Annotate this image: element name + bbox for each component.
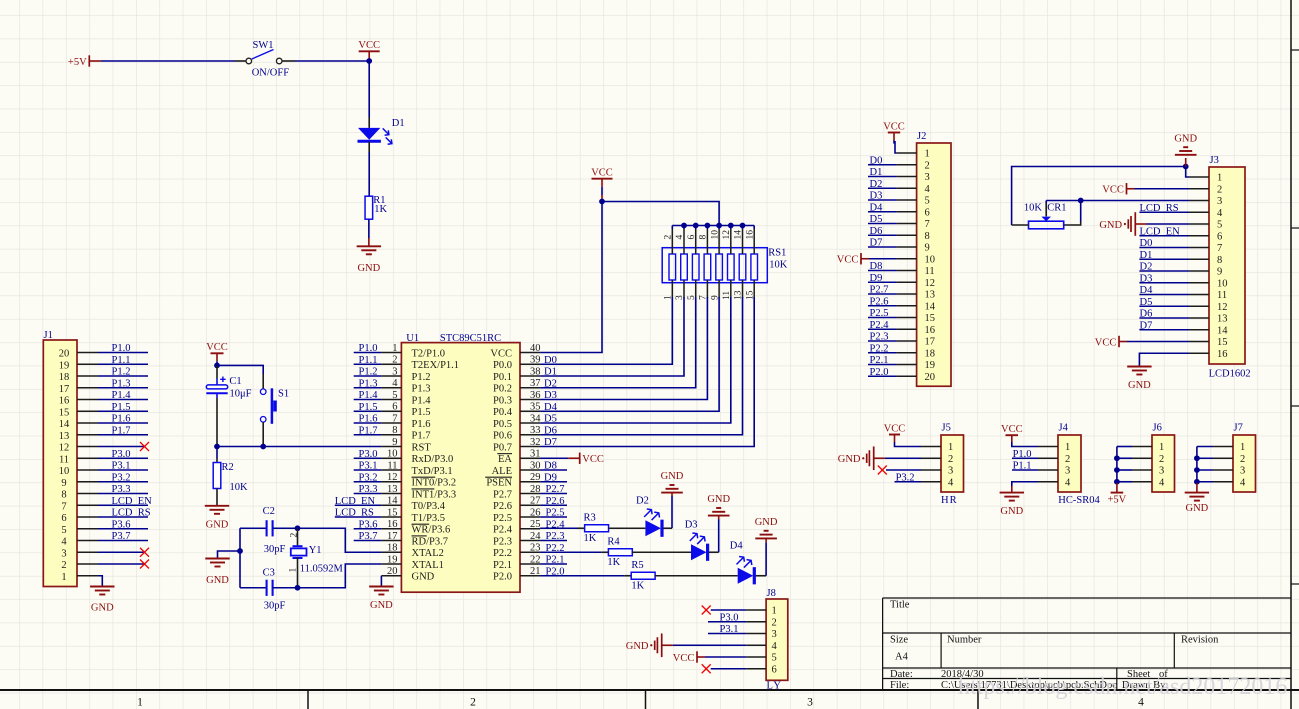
junction XTAL2 node <box>295 525 301 531</box>
wire J7 rail to GND <box>1196 483 1198 493</box>
svg-text:26: 26 <box>530 507 541 518</box>
power port VCC above J2 <box>888 133 900 144</box>
svg-text:15: 15 <box>925 313 936 324</box>
capacitor C1 <box>206 385 227 389</box>
svg-text:P1.4: P1.4 <box>412 395 432 406</box>
J2 pin 15 stub <box>897 317 917 319</box>
wire U1 pin 20 to GND <box>380 576 382 587</box>
J7 pin 3 stub <box>1213 469 1233 471</box>
wire U1 pin 2 <box>354 363 382 365</box>
svg-text:2: 2 <box>470 697 476 709</box>
svg-text:7: 7 <box>1217 243 1222 254</box>
svg-text:VCC: VCC <box>673 653 695 664</box>
svg-text:P2.6: P2.6 <box>493 501 512 512</box>
ground GND below J3 <box>1127 366 1151 368</box>
svg-text:P2.4: P2.4 <box>493 525 513 536</box>
svg-text:3: 3 <box>925 172 930 183</box>
svg-text:P2.1: P2.1 <box>546 555 565 566</box>
wire J2 pin10 VCC <box>869 258 897 260</box>
junction VCC C1 node <box>214 363 220 369</box>
svg-text:24: 24 <box>530 531 541 542</box>
svg-text:2: 2 <box>772 617 777 628</box>
wire J1 pin 9 <box>98 481 148 483</box>
J1 pin 9 stub <box>77 481 98 483</box>
svg-text:SW1: SW1 <box>253 40 274 51</box>
wire U1 ALE pin 30 <box>540 469 567 471</box>
RS1 top pin 10 <box>718 229 720 254</box>
wire U1 pin 14 <box>335 504 382 506</box>
wire U1 P2.2 to R4 <box>540 551 601 553</box>
svg-text:P3.3: P3.3 <box>112 484 131 495</box>
wire VCC node down to C1 <box>216 365 218 378</box>
svg-text:D1: D1 <box>870 167 883 178</box>
J5 pin 4 stub <box>921 481 941 483</box>
wire J2 pin 8 <box>868 234 897 236</box>
svg-text:P2.6: P2.6 <box>870 296 889 307</box>
svg-text:P3.6: P3.6 <box>112 519 131 530</box>
svg-text:VCC: VCC <box>206 342 228 353</box>
svg-text:J8: J8 <box>767 588 776 599</box>
ground GND below J1 <box>90 586 114 588</box>
J5 pin 2 stub <box>921 457 941 459</box>
svg-text:LCD_EN: LCD_EN <box>1140 226 1181 237</box>
junction RST rail at S1 <box>260 444 266 450</box>
svg-text:VCC: VCC <box>358 40 380 51</box>
svg-text:15: 15 <box>1217 337 1228 348</box>
svg-text:P3.2: P3.2 <box>896 472 915 483</box>
svg-text:P2.5: P2.5 <box>870 308 889 319</box>
svg-text:P2.2: P2.2 <box>870 343 889 354</box>
wire J4 pin1 to VCC <box>1011 435 1013 442</box>
svg-text:D5: D5 <box>544 414 557 425</box>
RS1 element 7 <box>739 254 746 280</box>
svg-text:P0.2: P0.2 <box>493 384 512 395</box>
svg-text:D3: D3 <box>544 390 557 401</box>
J2 pin 6 stub <box>897 211 917 213</box>
svg-text:10: 10 <box>1217 278 1228 289</box>
svg-text:P0.1: P0.1 <box>493 372 512 383</box>
wire bottom rail to C3 <box>240 587 267 589</box>
wire J2 pin 19 <box>868 364 897 366</box>
U1 pin 15 stub <box>381 516 401 518</box>
svg-text:P1.3: P1.3 <box>359 378 378 389</box>
U1 pin 18 stub <box>381 551 401 553</box>
wire J1 pin 16 <box>98 399 148 401</box>
switch SW1 <box>246 58 252 64</box>
svg-text:2: 2 <box>289 533 299 538</box>
wire J2 pin 14 <box>868 305 897 307</box>
svg-text:D6: D6 <box>544 425 557 436</box>
switch S1 <box>260 389 266 395</box>
svg-text:+5V: +5V <box>1108 494 1127 505</box>
svg-text:2: 2 <box>392 355 397 366</box>
J1 pin 5 stub <box>77 528 98 530</box>
wire C2 to XTAL2 node <box>273 527 298 529</box>
svg-text:D2: D2 <box>636 496 649 507</box>
svg-text:P1.3: P1.3 <box>412 384 431 395</box>
wire U1 P0.1 to RS1 pin 3 <box>540 297 684 376</box>
svg-text:4: 4 <box>1217 208 1223 219</box>
svg-text:1: 1 <box>1217 173 1222 184</box>
connector J7 body <box>1233 435 1256 492</box>
svg-text:P2.2: P2.2 <box>493 548 512 559</box>
svg-text:14: 14 <box>1217 325 1228 336</box>
wire J3 pin15 VCC <box>1127 341 1189 343</box>
svg-text:20: 20 <box>387 566 398 577</box>
sheet bottom border <box>0 689 1299 691</box>
svg-text:10K: 10K <box>1024 202 1043 213</box>
svg-text:TxD/P3.1: TxD/P3.1 <box>412 466 453 477</box>
wire R5 to D4 <box>655 575 738 577</box>
svg-text:23: 23 <box>530 543 541 554</box>
svg-text:14: 14 <box>925 301 936 312</box>
svg-text:GND: GND <box>1186 503 1209 514</box>
J3 pin 16 stub <box>1189 352 1209 354</box>
ground GND above D4 <box>755 537 777 539</box>
wire J7 pin 4 <box>1197 481 1213 483</box>
svg-text:1: 1 <box>1159 442 1164 453</box>
resistor R3 <box>585 525 609 532</box>
potentiometer CR1 <box>1029 221 1064 229</box>
svg-text:D6: D6 <box>1140 309 1153 320</box>
J4 pin 3 stub <box>1038 469 1058 471</box>
wire J2 pin 15 <box>868 317 897 319</box>
J2 pin 12 stub <box>897 281 917 283</box>
svg-text:3: 3 <box>1065 466 1070 477</box>
svg-text:D4: D4 <box>544 402 558 413</box>
wire U1 P2.6 <box>540 504 567 506</box>
wire J8 pin2 <box>708 621 746 623</box>
svg-text:19: 19 <box>925 360 936 371</box>
svg-text:D7: D7 <box>544 437 557 448</box>
svg-text:https://blog.csdn.net/asd20172: https://blog.csdn.net/asd20172016 <box>958 674 1287 700</box>
J5 pin 3 stub <box>921 469 941 471</box>
U1 pin 1 stub <box>381 352 401 354</box>
svg-text:T2/P1.0: T2/P1.0 <box>412 348 446 359</box>
J2 pin 2 stub <box>897 164 917 166</box>
svg-text:P1.6: P1.6 <box>412 419 431 430</box>
U1 pin 25 stub <box>520 528 540 530</box>
svg-text:5: 5 <box>772 653 777 664</box>
svg-text:LCD_RS: LCD_RS <box>1140 203 1179 214</box>
U1 pin 29 stub <box>520 481 540 483</box>
J7 pin 4 stub <box>1213 481 1233 483</box>
wire J6 pin 1 <box>1117 446 1132 448</box>
J3 pin 15 stub <box>1189 341 1209 343</box>
svg-text:4: 4 <box>948 477 954 488</box>
svg-text:P2.5: P2.5 <box>493 513 512 524</box>
svg-text:9: 9 <box>925 243 930 254</box>
wire J3 pin 7 <box>1139 247 1189 249</box>
ground GND bar at J8 pin4 <box>661 633 663 657</box>
wire R4 to D3 <box>632 551 691 553</box>
wire J2 pin 2 <box>868 164 897 166</box>
svg-text:11: 11 <box>925 266 935 277</box>
J1 pin 8 stub <box>77 493 98 495</box>
connector J3 body <box>1209 167 1245 364</box>
ground GND below J4 <box>1000 492 1024 494</box>
connector J6 body <box>1152 435 1175 492</box>
junction GND net above J3 <box>1183 164 1189 170</box>
svg-text:Title: Title <box>890 600 910 611</box>
svg-text:J3: J3 <box>1210 155 1219 166</box>
svg-text:10μF: 10μF <box>230 389 252 400</box>
J1 pin 17 stub <box>77 387 98 389</box>
power port VCC above RS1 <box>592 179 613 195</box>
svg-text:20: 20 <box>925 372 936 383</box>
svg-text:P1.6: P1.6 <box>359 414 378 425</box>
svg-text:9: 9 <box>61 478 66 489</box>
wire J3 pin 4 <box>1139 211 1189 213</box>
no-connect X on J5 pin3 <box>878 466 887 475</box>
wire J3 pin16 to GND <box>1139 353 1189 366</box>
wire U1 pin 4 <box>354 387 382 389</box>
J2 pin 17 stub <box>897 340 917 342</box>
J1 pin 3 stub <box>77 551 98 553</box>
J2 pin 7 stub <box>897 223 917 225</box>
wire J2 pin 9 <box>868 246 897 248</box>
wire XTAL2 node to U1 pin 18 <box>298 528 382 552</box>
svg-text:3: 3 <box>1159 466 1164 477</box>
svg-text:P1.4: P1.4 <box>359 390 379 401</box>
svg-text:P0.7: P0.7 <box>493 442 512 453</box>
junction J6 rail <box>1114 455 1120 461</box>
svg-text:D9: D9 <box>870 273 883 284</box>
svg-text:10: 10 <box>925 254 936 265</box>
svg-text:D3: D3 <box>1140 273 1153 284</box>
svg-text:P3.1: P3.1 <box>112 461 131 472</box>
svg-text:33: 33 <box>530 425 541 436</box>
wire U1 pin 7 <box>354 422 382 424</box>
J3 pin 6 stub <box>1189 235 1209 237</box>
svg-text:GND: GND <box>838 454 861 465</box>
svg-text:P3.2: P3.2 <box>112 472 131 483</box>
wire U1 pin 16 <box>354 528 382 530</box>
svg-text:GND: GND <box>357 263 380 274</box>
wire J1 pin 4 <box>98 540 148 542</box>
svg-text:6: 6 <box>925 207 930 218</box>
wire J2 pin 3 <box>868 176 897 178</box>
wire J6 pin 3 <box>1117 469 1132 471</box>
U1 pin 16 stub <box>381 528 401 530</box>
ground GND below R2 <box>205 505 229 507</box>
svg-text:P0.0: P0.0 <box>493 360 512 371</box>
wire J3 pin2 VCC <box>1135 188 1190 190</box>
wire RS1 common rail <box>672 225 754 227</box>
wire U1 EA pin 31 <box>540 457 568 459</box>
wire U1 P0.0 to RS1 pin 1 <box>540 297 672 364</box>
svg-text:5: 5 <box>61 525 66 536</box>
power port VCC above C1 <box>211 353 224 365</box>
svg-text:1: 1 <box>392 343 397 354</box>
U1 pin 33 stub <box>520 434 540 436</box>
svg-text:15: 15 <box>59 407 70 418</box>
J3 pin 12 stub <box>1189 305 1209 307</box>
svg-text:11: 11 <box>1217 290 1227 301</box>
svg-text:6: 6 <box>392 402 397 413</box>
svg-text:P3.7: P3.7 <box>112 531 131 542</box>
wire CR1 left leg <box>1012 224 1029 226</box>
U1 pin 27 stub <box>520 504 540 506</box>
wire J8 pin5 <box>705 656 746 658</box>
svg-text:Y1: Y1 <box>309 545 322 556</box>
svg-text:18: 18 <box>925 348 936 359</box>
svg-text:P2.0: P2.0 <box>493 572 512 583</box>
svg-text:6: 6 <box>687 235 697 240</box>
junction VCC node <box>366 58 372 64</box>
svg-text:File:: File: <box>890 680 909 691</box>
svg-text:40: 40 <box>530 343 541 354</box>
svg-text:P3.1: P3.1 <box>720 624 739 635</box>
svg-text:3: 3 <box>1217 196 1222 207</box>
J2 pin 16 stub <box>897 328 917 330</box>
RS1 element 1 <box>669 254 676 280</box>
wire J1 pin 2 no-connect <box>98 563 145 565</box>
J1 pin 2 stub <box>77 563 98 565</box>
svg-text:1: 1 <box>772 606 777 617</box>
J8 pin 4 stub <box>746 644 766 646</box>
svg-text:GND: GND <box>661 471 684 482</box>
svg-text:P0.6: P0.6 <box>493 431 512 442</box>
J1 pin 19 stub <box>77 363 98 365</box>
svg-text:P1.1: P1.1 <box>1013 461 1032 472</box>
wire J1 pin1 to GND <box>98 576 102 586</box>
U1 pin 5 stub <box>381 399 401 401</box>
svg-text:P1.1: P1.1 <box>359 355 378 366</box>
wire D2 to GND <box>663 527 672 529</box>
svg-text:7: 7 <box>392 413 397 424</box>
wire J2 pin1 to VCC <box>895 141 897 153</box>
svg-text:P2.3: P2.3 <box>546 531 565 542</box>
svg-text:P2.0: P2.0 <box>870 367 889 378</box>
svg-text:R4: R4 <box>607 537 620 548</box>
svg-text:U1: U1 <box>406 333 419 344</box>
junction J7 rail <box>1194 455 1200 461</box>
svg-text:1K: 1K <box>584 533 597 544</box>
J1 pin 16 stub <box>77 399 98 401</box>
svg-text:LCD_RS: LCD_RS <box>112 508 151 519</box>
wire Y1 to bottom rail <box>297 557 299 588</box>
wire D1 to R1 <box>368 142 370 152</box>
RS1 top pin 16 <box>753 229 755 254</box>
wire RST rail to U1 pin 9 <box>217 446 381 448</box>
wire junction to ground <box>1185 158 1187 167</box>
svg-text:P2.3: P2.3 <box>870 332 889 343</box>
wire SW1 to VCC node <box>282 60 296 62</box>
svg-text:LCD_RS: LCD_RS <box>335 508 374 519</box>
wire U1 pin 6 <box>354 410 382 412</box>
svg-text:1: 1 <box>1240 442 1245 453</box>
wire U1 P0.7 to RS1 pin 15 <box>540 297 754 447</box>
U1 pin 10 stub <box>381 457 401 459</box>
wire J1 pin 20 <box>98 352 148 354</box>
title block <box>883 598 1291 690</box>
svg-text:3: 3 <box>772 629 777 640</box>
U1 pin 2 stub <box>381 363 401 365</box>
svg-text:GND: GND <box>1174 133 1197 144</box>
wire J3 pin 12 <box>1139 305 1189 307</box>
J1 pin 7 stub <box>77 504 98 506</box>
svg-text:GND: GND <box>206 519 229 530</box>
J1 pin 11 stub <box>77 457 98 459</box>
U1 pin 30 stub <box>520 469 540 471</box>
RS1 element 2 <box>681 254 688 280</box>
wire J8 pin4 <box>673 644 746 646</box>
J8 pin 3 stub <box>746 633 766 635</box>
svg-text:P3.6: P3.6 <box>359 519 378 530</box>
svg-text:10K: 10K <box>230 482 249 493</box>
svg-text:4: 4 <box>675 235 685 240</box>
svg-text:20: 20 <box>59 349 70 360</box>
svg-text:GND: GND <box>626 641 649 652</box>
svg-text:P1.5: P1.5 <box>359 402 378 413</box>
wire to crystal GND <box>218 551 241 559</box>
svg-text:GND: GND <box>1099 220 1122 231</box>
connector J5 body <box>941 435 964 492</box>
wire J4 pin2 <box>1012 457 1038 459</box>
svg-text:INT1/P3.3: INT1/P3.3 <box>412 489 457 500</box>
svg-text:D2: D2 <box>1140 262 1153 273</box>
J3 pin 9 stub <box>1189 270 1209 272</box>
wire U1 P0.6 to RS1 pin 13 <box>540 297 742 435</box>
svg-text:T2EX/P1.1: T2EX/P1.1 <box>412 360 460 371</box>
svg-text:14: 14 <box>59 419 70 430</box>
wire J3 pin 10 <box>1139 282 1189 284</box>
svg-text:VCC: VCC <box>884 423 906 434</box>
svg-text:PSEN: PSEN <box>486 478 512 489</box>
svg-text:P1.2: P1.2 <box>359 367 378 378</box>
U1 pin 21 stub <box>520 575 540 577</box>
U1 pin 19 stub <box>381 563 401 565</box>
wire S1 bottom to RST rail <box>262 422 264 446</box>
wire U1 P2.5 <box>540 516 567 518</box>
wire U1 pin 8 <box>354 434 382 436</box>
svg-text:36: 36 <box>530 390 541 401</box>
resistor R4 <box>608 549 632 556</box>
junction RS1 common <box>716 223 722 229</box>
svg-text:CR1: CR1 <box>1047 202 1066 213</box>
J1 pin 1 stub <box>77 575 98 577</box>
svg-text:P1.0: P1.0 <box>359 343 378 354</box>
wire U1 P0.5 to RS1 pin 11 <box>540 297 731 423</box>
svg-text:P3.0: P3.0 <box>720 612 739 623</box>
ground GND bar at J3 pin5 <box>1147 223 1190 225</box>
svg-text:GND: GND <box>412 572 435 583</box>
RS1 bottom pin 3 <box>683 280 685 298</box>
wire J2 pin 18 <box>868 352 897 354</box>
svg-text:30: 30 <box>530 460 541 471</box>
svg-text:14: 14 <box>734 230 744 240</box>
svg-text:10: 10 <box>387 449 398 460</box>
wire XTAL2 node down to Y1 <box>297 528 299 546</box>
svg-text:D4: D4 <box>1140 285 1154 296</box>
wire J3 pin 11 <box>1139 294 1189 296</box>
U1 pin 32 stub <box>520 446 540 448</box>
J7 pin 2 stub <box>1213 457 1233 459</box>
svg-text:10: 10 <box>59 466 70 477</box>
wire J6 pin 2 <box>1117 457 1132 459</box>
svg-text:P3.3: P3.3 <box>359 484 378 495</box>
svg-text:2: 2 <box>1065 454 1070 465</box>
svg-text:P1.0: P1.0 <box>1013 449 1032 460</box>
svg-text:D2: D2 <box>544 378 557 389</box>
J8 pin 5 stub <box>746 656 766 658</box>
U1 pin 23 stub <box>520 551 540 553</box>
svg-text:8: 8 <box>925 231 930 242</box>
J2 pin 19 stub <box>897 364 917 366</box>
J2 pin 11 stub <box>897 270 917 272</box>
junction J7 rail <box>1194 479 1200 485</box>
